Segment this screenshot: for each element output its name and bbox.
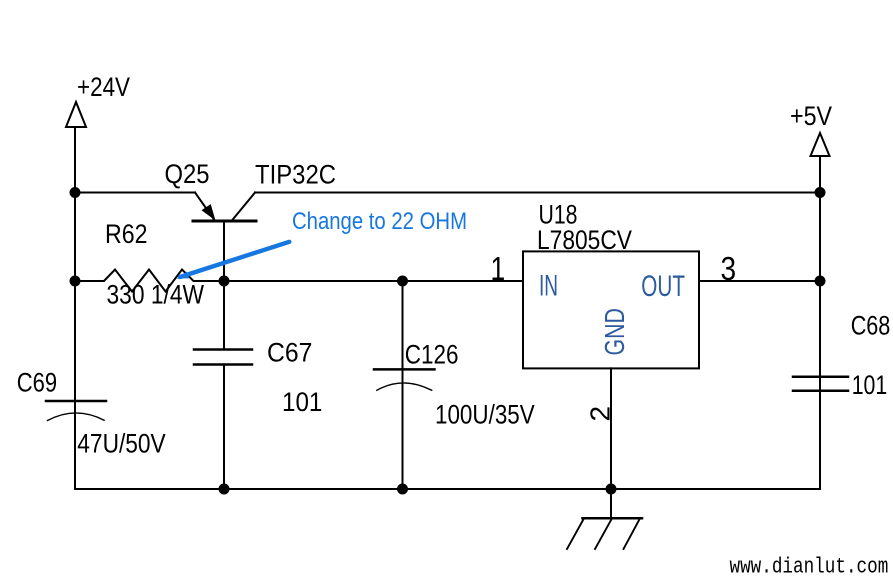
svg-text:100U/35V: 100U/35V <box>435 400 535 430</box>
svg-text:Q25: Q25 <box>165 159 210 189</box>
svg-text:1: 1 <box>491 251 506 287</box>
svg-text:C68: C68 <box>851 310 891 340</box>
svg-text:47U/50V: 47U/50V <box>77 429 165 459</box>
svg-text:C67: C67 <box>267 338 312 368</box>
svg-text:2: 2 <box>585 406 616 422</box>
svg-text:GND: GND <box>599 308 630 355</box>
svg-text:L7805CV: L7805CV <box>537 225 632 255</box>
svg-text:Change to 22 OHM: Change to 22 OHM <box>292 208 467 235</box>
svg-text:www.dianlut.com: www.dianlut.com <box>730 555 889 576</box>
svg-text:101: 101 <box>852 370 888 400</box>
svg-text:+24V: +24V <box>77 72 130 102</box>
svg-text:R62: R62 <box>105 219 148 249</box>
svg-text:IN: IN <box>539 270 558 303</box>
svg-text:330 1/4W: 330 1/4W <box>107 280 205 310</box>
svg-text:OUT: OUT <box>641 270 685 303</box>
svg-text:C69: C69 <box>17 367 57 397</box>
svg-text:TIP32C: TIP32C <box>255 160 336 190</box>
svg-text:3: 3 <box>721 251 737 288</box>
svg-text:101: 101 <box>282 387 322 417</box>
svg-text:+5V: +5V <box>790 101 832 131</box>
svg-text:C126: C126 <box>405 339 459 369</box>
